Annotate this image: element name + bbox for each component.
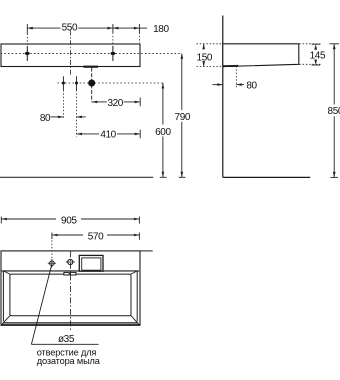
front view: faucet-hole axis dotted line (1, 52, 182, 54)
svg-text:дозатора мыла: дозатора мыла (37, 356, 101, 366)
top view: bowl inner rect (10, 274, 131, 316)
svg-text:850: 850 (328, 106, 340, 117)
dimension 850 (total height) (328, 44, 340, 178)
extension line: right hole up to 550/180 dim (112, 24, 114, 46)
front view: basin body outline (1, 44, 140, 67)
side view: floor line (223, 176, 310, 178)
top view: rear ledge line (bowl rim top) (2, 270, 140, 272)
dimension 320 (drain to right edge) (92, 98, 141, 109)
top view: recess box on ledge (79, 255, 103, 271)
front view: left fixing hole marker (25, 46, 30, 61)
fixing dot A (left small) (62, 76, 65, 119)
fixing dot B (right small) (75, 76, 78, 137)
top view: faucet hole (66, 259, 75, 264)
side view: basin profile (223, 44, 299, 67)
svg-text:790: 790 (175, 112, 191, 123)
svg-text:ø35: ø35 (58, 334, 75, 345)
dimension 410 (fixing dot to right edge) (77, 130, 141, 141)
front view: right fixing hole marker (111, 46, 116, 61)
dimension 600 (drain axis height) (155, 83, 171, 177)
annotation text line 2 (37, 356, 101, 366)
top view: outer rect (1, 251, 153, 325)
floor line (front view) (0, 176, 153, 178)
svg-text:570: 570 (88, 231, 104, 242)
dimension 80 (side, drain from wall) (212, 81, 257, 92)
top view: vertical centerline (70, 251, 72, 330)
front view: drain mark on bottom edge (83, 66, 98, 68)
svg-text:320: 320 (107, 98, 123, 109)
side view: wall line (222, 16, 224, 178)
dimension 570 (soap hole to right edge) (52, 231, 139, 242)
dimension 80 (front, between fixing dots) (40, 113, 86, 124)
svg-text:150: 150 (197, 52, 213, 63)
svg-text:410: 410 (100, 130, 116, 141)
side view: drain ext dotted line (235, 66, 237, 88)
top view: overflow slot tabs (64, 272, 76, 275)
extension dotted lines for 145 (299, 44, 321, 65)
dimension 150 (back height) (197, 44, 213, 67)
front view: drain/fixing dotted axis below basin (58, 82, 163, 84)
label ø35 (58, 334, 75, 345)
dimension 550 (fixing holes spacing) (27, 22, 113, 33)
top view: bowl rim sides and bottom (3, 271, 138, 323)
top view: soap dispenser hole (48, 237, 56, 267)
svg-text:80: 80 (246, 81, 257, 92)
svg-text:905: 905 (61, 215, 77, 226)
extension dotted lines for 150 (197, 44, 223, 67)
svg-text:145: 145 (310, 51, 326, 62)
extension line: left hole up to 550 dim (26, 24, 28, 46)
top view: bowl corner diagonals (2, 271, 140, 325)
drain dot (big) (88, 68, 95, 102)
svg-text:600: 600 (155, 127, 171, 138)
annotation text line 1 (37, 347, 97, 357)
svg-text:80: 80 (40, 113, 51, 124)
extension line: basin right edge up to 180 dim (138, 24, 140, 43)
leader line to soap dispenser hole (31, 264, 98, 344)
dimension 790 (fixing holes height) (175, 53, 191, 177)
dimension 905 (overall width) (1, 215, 139, 226)
dimension 145 (front height) (310, 44, 326, 65)
dimension 180 (hole to right edge) (113, 24, 170, 35)
front view: vertical centerline (70, 31, 72, 76)
svg-text:550: 550 (62, 22, 78, 33)
svg-text:180: 180 (153, 24, 169, 35)
